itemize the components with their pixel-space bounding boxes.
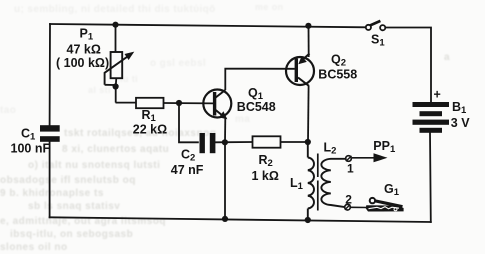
svg-text:( 100 kΩ): ( 100 kΩ) xyxy=(56,56,109,70)
switch S1 xyxy=(366,21,386,30)
svg-text:100 nF: 100 nF xyxy=(11,141,51,155)
wire R1 to Q1 base xyxy=(164,102,214,104)
svg-text:u; sembling, ni detailed thi d: u; sembling, ni detailed thi dis tuktύiq… xyxy=(14,4,216,15)
battery B1 xyxy=(413,102,450,133)
wire C2 to R2 xyxy=(215,141,253,143)
resistor R1 xyxy=(136,98,164,108)
wire P1 to R1 xyxy=(116,102,137,104)
wire Q1 emitter down xyxy=(224,118,226,142)
junction node R2 right xyxy=(305,139,311,145)
svg-text:BC558: BC558 xyxy=(318,67,357,81)
wire R2 to L1 top junction xyxy=(281,141,308,143)
wire left rail lower xyxy=(49,142,51,218)
wiper arrow xyxy=(105,55,130,85)
wire top rail xyxy=(50,24,366,27)
inductor L2 (secondary) xyxy=(321,159,345,207)
svg-text:sb ls snaq statisv: sb ls snaq statisv xyxy=(28,201,120,212)
junction node bottom L1 xyxy=(305,217,311,223)
junction node P1 top xyxy=(112,22,118,28)
potentiometer P1 xyxy=(105,25,135,103)
wire wiper tail to junction xyxy=(105,84,116,86)
wire top-right after switch xyxy=(386,28,431,102)
svg-text:ma: ma xyxy=(235,114,250,125)
svg-text:47 nF: 47 nF xyxy=(171,163,204,177)
svg-text:1: 1 xyxy=(347,162,354,176)
svg-text:2: 2 xyxy=(345,192,352,206)
junction node R1 right xyxy=(176,100,182,106)
svg-text:9 b. khidronaplse ts: 9 b. khidronaplse ts xyxy=(0,188,104,199)
wire C2 junction down to bottom rail xyxy=(224,142,226,219)
junction node bottom Q1 xyxy=(222,216,228,222)
wire bottom rail xyxy=(50,217,431,222)
wire P1 bottom down xyxy=(115,85,117,103)
wire right rail lower (battery to bottom) xyxy=(429,133,432,222)
svg-text:22 kΩ: 22 kΩ xyxy=(133,123,167,137)
svg-text:+: + xyxy=(434,87,441,101)
svg-text:me on: me on xyxy=(255,2,284,12)
svg-text:ibsq-itlu, on sebogsasb: ibsq-itlu, on sebogsasb xyxy=(10,229,133,240)
svg-text:slones oil no: slones oil no xyxy=(0,242,68,253)
transformer core xyxy=(317,154,319,211)
resistor R2 xyxy=(253,136,281,147)
svg-text:o gsl eebsl: o gsl eebsl xyxy=(150,58,206,69)
svg-text:47 kΩ: 47 kΩ xyxy=(67,43,101,57)
wire Q1 collector to Q2 base xyxy=(225,69,294,90)
capacitor C2 xyxy=(200,133,216,153)
capacitor C1 xyxy=(40,125,60,142)
junction node Q2 top xyxy=(305,23,311,29)
terminal 1 xyxy=(346,156,352,162)
junction node C2 right xyxy=(222,139,228,145)
svg-text:a: a xyxy=(444,52,450,63)
probe arrow PP1 xyxy=(352,153,388,162)
wire Q2 emitter to top rail xyxy=(308,26,310,57)
svg-text:obsadogse ifl snelutsb oq: obsadogse ifl snelutsb oq xyxy=(0,175,136,186)
transistor Q2 xyxy=(286,54,314,86)
wire left rail upper xyxy=(49,24,51,125)
svg-text:BC548: BC548 xyxy=(237,100,276,114)
junction node P1 wiper xyxy=(113,83,119,89)
svg-text:3 V: 3 V xyxy=(451,116,470,130)
terminal 2 xyxy=(345,204,351,210)
transistor Q1 xyxy=(203,90,231,120)
svg-text:tao: tao xyxy=(0,105,16,116)
alligator clip G1 xyxy=(366,198,404,212)
svg-text:8 xi, clunertos aqatu: 8 xi, clunertos aqatu xyxy=(62,144,169,155)
svg-text:1 kΩ: 1 kΩ xyxy=(252,169,279,183)
wire R1 junction down to C2 xyxy=(179,103,199,142)
svg-text:o) italt nu snotensq lutsti: o) italt nu snotensq lutsti xyxy=(28,160,160,171)
svg-text:al sti: al sti xyxy=(88,85,111,95)
wire terminal 2 to clip xyxy=(351,206,368,208)
wire Q2 collector down xyxy=(307,86,310,143)
inductor L1 (primary) xyxy=(308,142,314,220)
